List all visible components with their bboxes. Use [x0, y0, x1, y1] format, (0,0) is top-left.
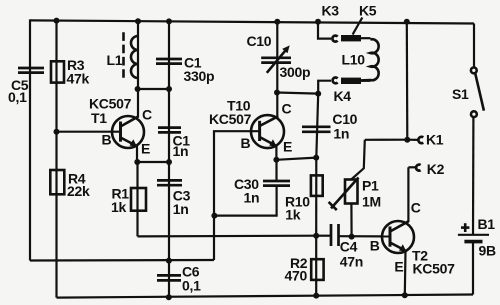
- capacitor C3: [157, 180, 191, 217]
- svg-text:1n: 1n: [173, 201, 189, 217]
- svg-text:K2: K2: [427, 161, 445, 177]
- wire T10 collector column: [276, 22, 278, 117]
- svg-text:KC507: KC507: [209, 111, 252, 127]
- capacitor C6: [157, 264, 201, 294]
- wire feedback line: [138, 235, 317, 238]
- wire T1 base: [57, 131, 121, 133]
- node C10 bottom: [274, 90, 280, 96]
- wire P1 bottom: [350, 204, 352, 237]
- svg-text:0,1: 0,1: [8, 89, 27, 105]
- svg-text:B: B: [241, 135, 251, 151]
- wire K4 branch: [318, 81, 331, 94]
- svg-text:L1: L1: [107, 52, 123, 68]
- wire C30 bottom: [214, 186, 276, 216]
- wire L1 collector column: [137, 21, 139, 117]
- node C1 1n bottom: [166, 159, 172, 165]
- potentiometer P1: [329, 178, 381, 211]
- capacitor C4: [331, 224, 363, 270]
- svg-text:C: C: [282, 101, 292, 117]
- resistor R4: [50, 170, 90, 199]
- svg-text:1M: 1M: [362, 194, 381, 210]
- capacitor C5: [8, 68, 44, 105]
- node L1 top: [135, 18, 141, 24]
- svg-text:K4: K4: [334, 88, 352, 104]
- wire C1 1n column: [168, 89, 170, 297]
- wire C10 1n column: [316, 94, 318, 158]
- wire R1 column: [136, 162, 138, 236]
- wire T2 collector: [407, 167, 409, 222]
- wire K1 branch: [365, 139, 408, 141]
- wire emitter junction line: [276, 158, 316, 160]
- svg-text:47n: 47n: [340, 254, 363, 270]
- svg-text:1n: 1n: [244, 190, 260, 206]
- node P1 bottom: [349, 234, 355, 240]
- resistor R2: [285, 255, 324, 284]
- node top rail / R3: [54, 18, 60, 24]
- svg-text:KC507: KC507: [413, 261, 456, 277]
- node C30 junction: [211, 213, 217, 219]
- svg-text:22k: 22k: [67, 183, 90, 199]
- svg-text:470: 470: [285, 268, 308, 284]
- svg-text:S1: S1: [452, 86, 469, 102]
- transistor T10: [209, 98, 292, 155]
- terminal K5 plug: [341, 3, 377, 42]
- wire S1 to battery: [472, 117, 475, 235]
- terminal K2: [408, 161, 444, 177]
- wire P1 top: [351, 140, 365, 180]
- node T1 emitter: [134, 159, 140, 165]
- wire battery to rail: [472, 242, 474, 295]
- svg-text:300p: 300p: [280, 64, 311, 80]
- svg-text:47k: 47k: [67, 71, 90, 87]
- resistor R1: [111, 186, 146, 216]
- svg-text:1n: 1n: [333, 126, 349, 142]
- node T2 emitter rail: [402, 292, 408, 298]
- svg-text:E: E: [141, 141, 150, 157]
- node K1 top rail: [404, 19, 410, 25]
- svg-text:1n: 1n: [173, 143, 189, 159]
- svg-text:1k: 1k: [111, 199, 126, 215]
- node K1: [404, 137, 410, 143]
- node bias line C6: [166, 258, 172, 264]
- wire S1 column: [473, 24, 475, 68]
- svg-text:K1: K1: [426, 132, 444, 148]
- terminal K3 socket: [322, 3, 340, 42]
- wire R10 column: [315, 158, 317, 236]
- capacitor C1 330p: [156, 55, 214, 85]
- wire K3 branch: [318, 22, 331, 39]
- node C4 junction: [313, 233, 319, 239]
- svg-text:C: C: [142, 107, 152, 123]
- svg-text:C: C: [411, 200, 421, 216]
- svg-text:K5: K5: [359, 3, 377, 19]
- node C10 top: [274, 19, 280, 25]
- node L1 bottom: [135, 86, 141, 92]
- battery B1: [458, 216, 496, 259]
- node R10 top: [313, 155, 319, 161]
- svg-text:L10: L10: [342, 52, 366, 68]
- svg-text:1k: 1k: [285, 207, 300, 223]
- svg-text:E: E: [394, 259, 403, 275]
- svg-text:K3: K3: [322, 3, 340, 19]
- transistor T2: [370, 200, 455, 277]
- wire T10 emitter stub: [275, 146, 277, 160]
- resistor R10: [285, 175, 323, 222]
- node T10 emitter: [273, 157, 279, 163]
- capacitor C10 1n: [302, 111, 358, 142]
- wire C4 to T2 base: [339, 235, 391, 237]
- wire C30 top: [275, 160, 277, 181]
- wire T2 emitter: [404, 251, 407, 295]
- svg-text:9B: 9B: [479, 243, 496, 259]
- wire emitter to C1n: [137, 161, 169, 163]
- transistor T1: [89, 96, 152, 157]
- svg-text:C10: C10: [247, 33, 272, 49]
- inductor L10: [342, 38, 379, 81]
- svg-text:330p: 330p: [184, 68, 215, 84]
- wire K1 column: [406, 22, 409, 140]
- wire R2 column: [315, 236, 317, 296]
- switch S1: [452, 68, 484, 118]
- svg-text:0,1: 0,1: [182, 278, 201, 294]
- svg-text:B: B: [370, 238, 380, 254]
- resistor R3: [51, 57, 89, 87]
- svg-text:E: E: [283, 139, 292, 155]
- variable capacitor C10 300p: [247, 33, 311, 80]
- node K4 junction: [315, 91, 321, 97]
- node C1 top: [166, 18, 172, 24]
- wire R3 R4 column: [55, 21, 57, 298]
- node R2 bottom: [313, 293, 319, 299]
- capacitor C1 1n: [158, 128, 190, 159]
- wire T1 emitter: [136, 146, 138, 162]
- terminal K1: [407, 132, 444, 148]
- svg-text:B: B: [102, 132, 112, 148]
- svg-text:T1: T1: [91, 110, 107, 126]
- inductor L1: [107, 32, 139, 79]
- capacitor C30: [234, 176, 290, 206]
- svg-text:B1: B1: [478, 216, 496, 232]
- node K3 top rail: [315, 19, 321, 25]
- wire top rail: [30, 20, 474, 23]
- wire bottom rail: [57, 295, 474, 298]
- wire bottom bias line: [30, 259, 214, 262]
- wire L1 bottom to C1: [138, 88, 169, 90]
- wire C4 left: [316, 235, 331, 237]
- wire left column C5 branch: [29, 19, 31, 260]
- terminal K4 socket: [333, 77, 338, 83]
- node T1 base junction: [54, 129, 60, 135]
- svg-text:C4: C4: [340, 239, 358, 255]
- wire C1 330p column: [168, 21, 170, 89]
- node bottom rail C6: [166, 294, 172, 300]
- wire K4 to collector: [277, 93, 318, 94]
- node C1 bottom: [166, 86, 172, 92]
- wire T10 base column: [214, 131, 260, 260]
- terminal K4 plug: [334, 78, 362, 104]
- svg-text:P1: P1: [362, 178, 379, 194]
